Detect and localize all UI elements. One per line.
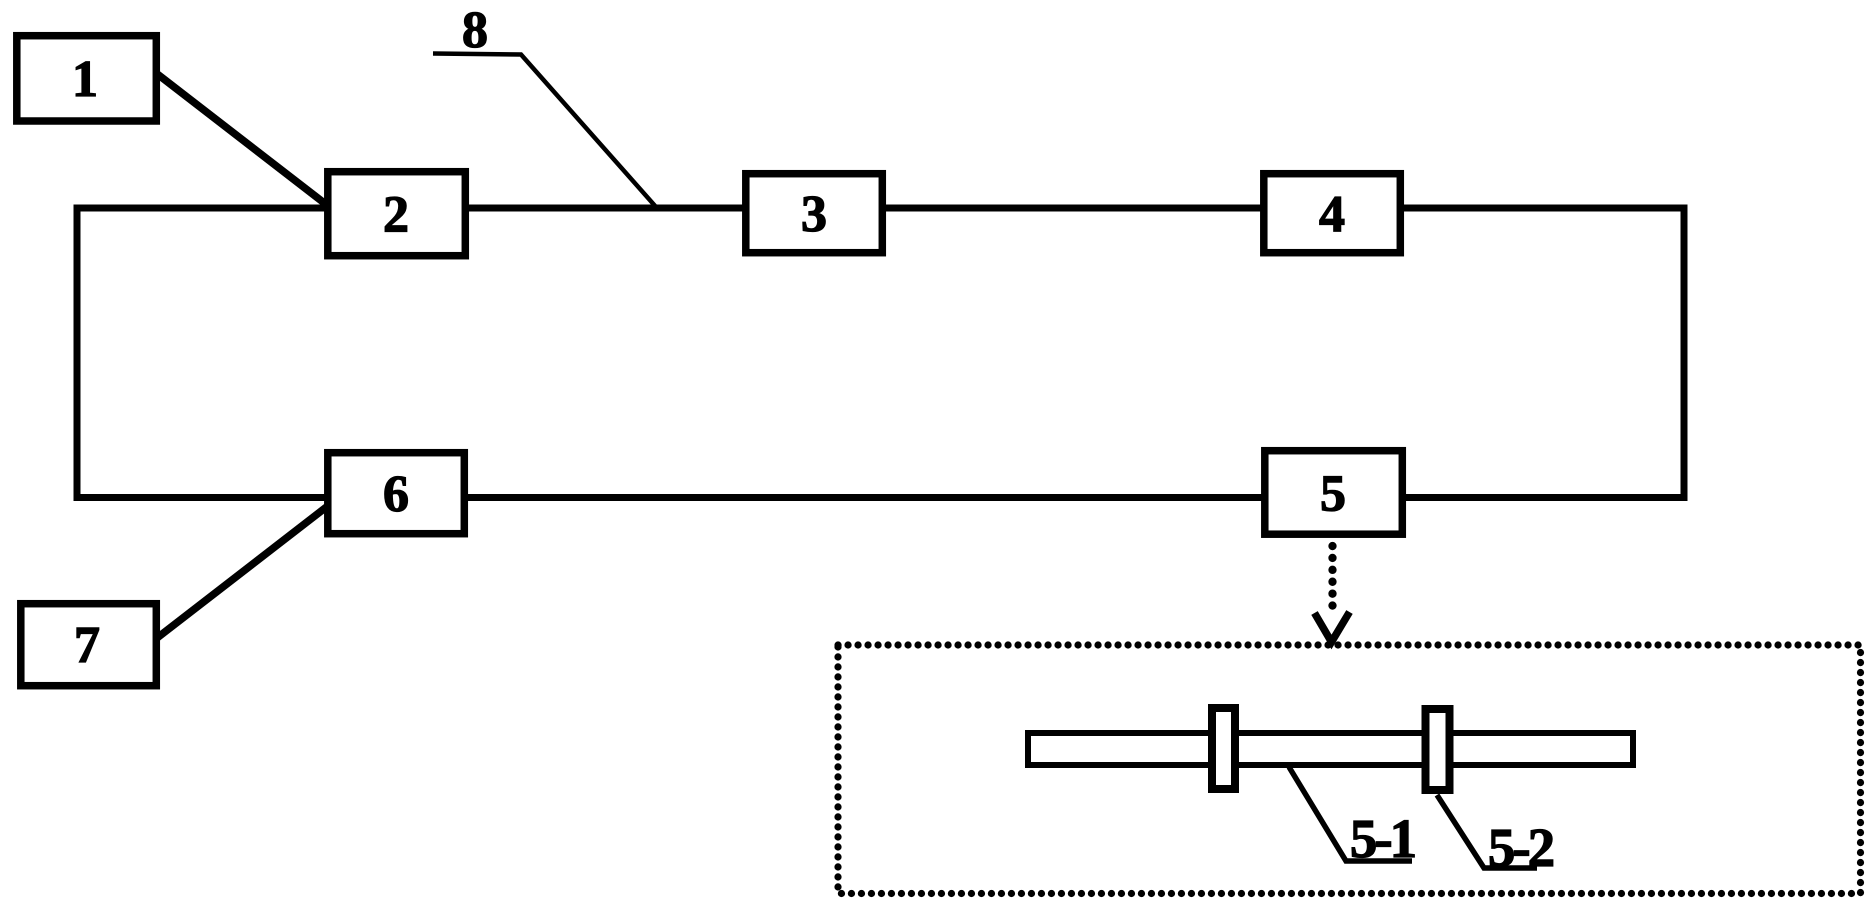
svg-text:5-2: 5-2: [1488, 817, 1554, 878]
svg-text:6: 6: [383, 466, 409, 523]
svg-text:7: 7: [74, 617, 100, 674]
svg-text:5-1: 5-1: [1350, 808, 1415, 869]
svg-text:1: 1: [72, 51, 98, 108]
svg-text:4: 4: [1319, 186, 1345, 243]
svg-text:8: 8: [462, 2, 488, 59]
svg-text:5: 5: [1320, 466, 1346, 523]
svg-text:2: 2: [383, 187, 409, 244]
svg-text:3: 3: [801, 186, 827, 243]
